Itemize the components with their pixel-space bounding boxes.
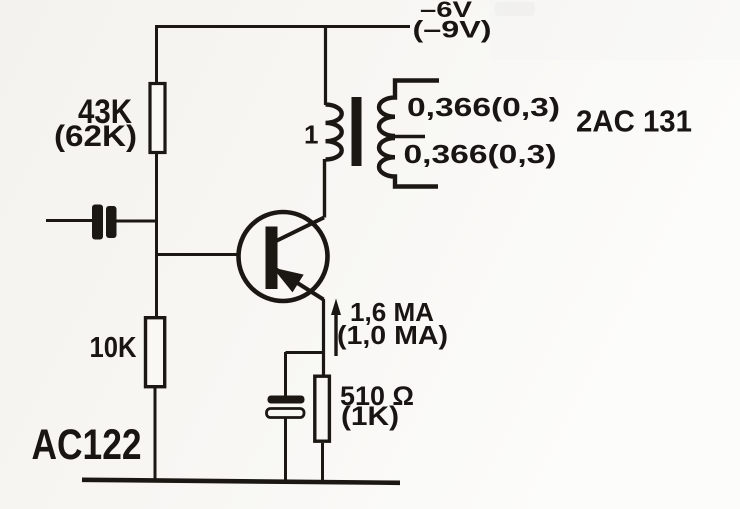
svg-text:2AC 131: 2AC 131 (576, 104, 692, 139)
wire base (156, 253, 240, 256)
svg-text:(1,0 MA): (1,0 MA) (337, 320, 448, 350)
svg-text:0,366(0,3): 0,366(0,3) (404, 139, 557, 169)
wire emitter vertical (322, 299, 325, 375)
svg-text:10K: 10K (90, 332, 137, 364)
wire left rail upper (155, 25, 158, 84)
svg-text:1: 1 (304, 120, 318, 150)
resistor R3 510 ohm (315, 376, 330, 441)
capacitor C1 input (92, 205, 117, 240)
wire input left (46, 219, 92, 222)
svg-text:AC122: AC122 (32, 421, 142, 469)
current arrow (334, 311, 337, 356)
wire collector rail (324, 25, 327, 105)
inductor L2 secondary lower (379, 138, 438, 187)
wire left rail lower (154, 388, 157, 482)
inductor L2 secondary upper (379, 81, 439, 137)
wire left rail middle (155, 152, 158, 318)
svg-text:(62K): (62K) (54, 120, 137, 153)
transformer core (352, 97, 362, 166)
svg-text:0,366(0,3): 0,366(0,3) (407, 92, 560, 122)
wire cap branch upper (284, 352, 287, 397)
wire emitter tap (286, 351, 325, 354)
resistor R1 43K (150, 84, 165, 153)
capacitor C2 bypass (268, 396, 305, 404)
wire center tap (387, 135, 426, 139)
resistor R2 10K (146, 318, 165, 387)
inductor L1 primary (326, 105, 342, 160)
svg-text:(1K): (1K) (341, 401, 399, 431)
wire cap to rail (116, 220, 156, 223)
ground rail (82, 480, 400, 483)
svg-text:(–9V): (–9V) (413, 17, 492, 44)
wire emitter to ground (321, 443, 324, 481)
transistor Q1 AC122 (239, 212, 328, 301)
wire cap branch lower (284, 417, 287, 481)
wire top rail (157, 25, 410, 28)
